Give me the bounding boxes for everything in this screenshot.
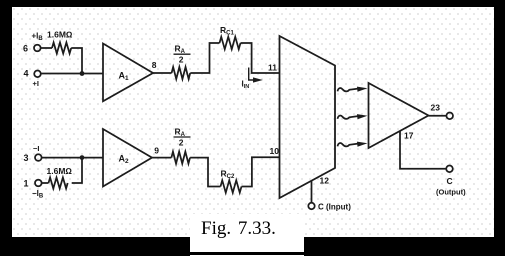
terminal C input [308, 203, 314, 209]
svg-text:3: 3 [24, 153, 29, 163]
wire RC1 to pin 11 [241, 43, 280, 73]
wire R2 to junction B [72, 158, 82, 183]
resistor RA/2 bottom [171, 152, 190, 164]
terminal 3 [35, 154, 42, 161]
signal arrow 1 [338, 88, 359, 91]
svg-text:−I: −I [33, 144, 39, 153]
svg-text:A1: A1 [119, 71, 130, 83]
wire RA/2 to RC1 [190, 43, 219, 73]
wire terminal1 to R2 [41, 182, 48, 184]
svg-text:+I: +I [33, 79, 39, 88]
op-amp U2 output buffer [369, 83, 429, 148]
wire A2 out [152, 157, 171, 159]
svg-text:RC1: RC1 [220, 25, 234, 37]
terminal 1 [35, 180, 42, 187]
svg-text:1.6MΩ: 1.6MΩ [47, 30, 73, 40]
wire terminal4 to opamp A1 [41, 73, 103, 75]
svg-text:11: 11 [268, 63, 277, 73]
wire pin 12 [311, 181, 313, 203]
wire R1 to junction A [71, 48, 82, 74]
svg-text:RC2: RC2 [221, 169, 235, 181]
node junction B [80, 155, 85, 160]
op-amp A2 [103, 129, 152, 187]
svg-text:2: 2 [179, 137, 184, 147]
svg-text:(Output): (Output) [436, 188, 466, 197]
current IIN indicator [249, 68, 254, 81]
wire RC2 to pin 10 [242, 157, 280, 186]
svg-text:4: 4 [24, 69, 29, 79]
svg-text:23: 23 [431, 103, 441, 113]
terminal 4 [34, 71, 41, 78]
svg-text:+IB: +IB [32, 32, 44, 43]
wire A1 out [153, 72, 172, 74]
signal arrow 2 [338, 116, 359, 119]
signal arrow 3 [338, 143, 359, 146]
wire RA/2 to RC2 [190, 158, 220, 187]
fraction bar top [174, 53, 191, 55]
svg-text:A2: A2 [119, 154, 130, 166]
terminal 6 [34, 45, 41, 52]
resistor RC2 [221, 180, 242, 192]
svg-text:C: C [447, 176, 453, 186]
node junction A [80, 71, 85, 76]
svg-text:8: 8 [152, 60, 157, 70]
svg-text:10: 10 [270, 146, 280, 156]
resistor RC1 [220, 37, 241, 49]
wire pin 17 [400, 131, 446, 169]
resistor R 1.6M bottom [49, 178, 68, 189]
svg-text:RA: RA [175, 44, 186, 56]
terminal 23 [446, 113, 453, 120]
resistor R 1.6M top [52, 43, 71, 54]
svg-text:2: 2 [179, 55, 184, 65]
wire U2 out [429, 115, 447, 117]
svg-text:1.6MΩ: 1.6MΩ [47, 166, 73, 176]
svg-text:IIN: IIN [242, 80, 250, 91]
block U1 trapezoid [280, 36, 336, 198]
fraction bar bottom [174, 136, 191, 138]
svg-text:1: 1 [24, 179, 29, 189]
svg-text:12: 12 [320, 176, 330, 186]
terminal C output [446, 166, 453, 173]
svg-text:−IB: −IB [32, 189, 44, 200]
wire terminal6 to R1 [40, 47, 52, 49]
resistor RA/2 top [172, 67, 191, 79]
svg-text:C (Input): C (Input) [318, 203, 351, 212]
op-amp A1 [103, 44, 153, 102]
svg-text:9: 9 [154, 145, 159, 155]
svg-text:RA: RA [175, 127, 186, 139]
wire terminal3 to opamp A2 [41, 157, 103, 159]
svg-text:6: 6 [23, 44, 28, 54]
svg-text:17: 17 [404, 131, 414, 141]
